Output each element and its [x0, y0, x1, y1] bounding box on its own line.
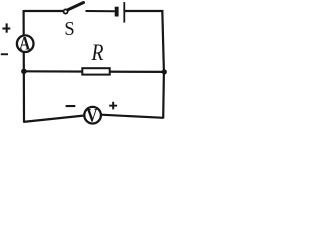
node B: right junction dot [162, 69, 167, 74]
switch S (open blade with pivot circle) [64, 3, 84, 14]
wire: bottom-left segment (voltmeter to corner) [24, 116, 85, 122]
wire: battery to top-right corner [125, 10, 163, 12]
wire: middle (node A to resistor to node B) [24, 70, 165, 73]
label − (ammeter negative terminal) [1, 53, 8, 55]
label − (voltmeter negative terminal) [66, 105, 76, 107]
ammeter A [17, 33, 34, 54]
node A: left junction dot [21, 69, 27, 75]
label + (voltmeter positive terminal) [109, 102, 117, 110]
battery BT1: short thick negative plate [115, 7, 119, 17]
wire: switch to battery [86, 10, 115, 12]
wire: bottom-right segment (node to voltmeter) [101, 115, 164, 118]
wire: right side [162, 10, 164, 118]
svg-text:R: R [91, 40, 104, 66]
resistor R [82, 68, 109, 74]
svg-text:S: S [64, 18, 74, 40]
label + (ammeter positive terminal) [2, 23, 10, 32]
svg-text:V: V [86, 105, 98, 125]
voltmeter V [84, 105, 101, 125]
svg-text:A: A [19, 33, 31, 54]
wire: left side [23, 10, 26, 123]
wire: top-left corner to switch [24, 10, 64, 12]
battery BT1: long thin positive plate [123, 2, 125, 23]
